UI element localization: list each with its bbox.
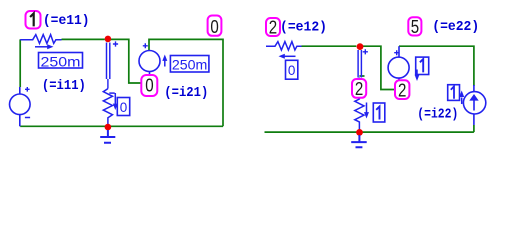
svg-text:2: 2: [355, 78, 363, 99]
resistor R0: [103, 89, 112, 127]
U1 plus sign: [394, 50, 399, 55]
wire port P2 bottom stub: [359, 75, 364, 77]
R2 current arrow (left): [284, 55, 296, 57]
R0 value box 0: [117, 98, 129, 116]
i21 plus sign: [143, 43, 148, 48]
current source i22: [463, 85, 485, 125]
wire top from resistor R2 to port dot: [302, 45, 357, 47]
P1 lead down to resistor R0: [107, 79, 109, 89]
ground: [100, 130, 115, 143]
node 0 box (below i21): [141, 75, 157, 96]
svg-text:0: 0: [210, 16, 218, 37]
resistor R3 (vertical): [355, 99, 364, 132]
svg-text:(=i22): (=i22): [417, 106, 458, 122]
svg-text:(=e12): (=e12): [280, 19, 327, 35]
svg-text:2: 2: [269, 17, 277, 38]
node 0 box (top right): [208, 16, 222, 36]
P1 plus sign: [113, 41, 118, 46]
current source i21: [139, 51, 160, 79]
R2 value box 0: [286, 60, 298, 79]
svg-text:0: 0: [120, 99, 128, 115]
svg-text:5: 5: [411, 16, 419, 37]
node 2 box (on port): [352, 79, 366, 98]
resistor R1: [20, 35, 61, 44]
R3 current arrow (down): [366, 103, 368, 113]
svg-text:(=e22): (=e22): [432, 19, 479, 35]
node dot bottom (ground junction): [105, 124, 112, 131]
i21 arrow (up): [164, 61, 166, 67]
ground: [351, 135, 367, 147]
wire right edge below i22: [473, 125, 475, 132]
i22 arrow (up, beside box): [461, 98, 463, 105]
U1 value box 1: [416, 57, 429, 74]
R1 value box 250m: [39, 53, 83, 69]
wire top from resistor R1 to port dot: [62, 38, 105, 40]
svg-text:(=i11): (=i11): [42, 78, 86, 94]
U1 arrow (down, small): [416, 70, 418, 75]
svg-text:(=i21): (=i21): [164, 85, 208, 101]
node 5 box (top right): [408, 17, 421, 35]
R3 value box 1: [373, 103, 385, 122]
wire bottom: [20, 125, 223, 127]
R1 current arrow: [35, 46, 49, 48]
wire bottom: [265, 131, 474, 133]
i21 value box 250m: [170, 56, 209, 73]
svg-text:0: 0: [288, 62, 296, 78]
node dot (node 2 junction): [357, 43, 364, 50]
wire left edge: [19, 39, 21, 87]
voltage source V1: [9, 87, 30, 126]
svg-text:(=e11): (=e11): [43, 13, 90, 29]
P2 plus sign: [363, 49, 368, 54]
voltage source U1: [388, 46, 409, 89]
svg-text:250m: 250m: [172, 56, 208, 72]
node dot bottom (ground junction): [356, 129, 363, 136]
svg-text:0: 0: [145, 75, 153, 96]
R0 current arrow (down): [114, 93, 116, 104]
P1 minus sign: [109, 92, 114, 94]
wire from port dot to source i21 bottom: [108, 39, 143, 83]
resistor R2 (top left): [266, 42, 302, 50]
node 2 box (top left): [266, 18, 280, 36]
i22 value box 1: [448, 85, 460, 101]
wire from source U1 top to right edge: [399, 46, 474, 86]
i22 internal arrow (up): [473, 100, 475, 111]
svg-text:2: 2: [398, 79, 406, 100]
V1 minus sign: [25, 117, 30, 119]
V1 plus sign: [25, 87, 30, 92]
wire from port dot down to source U1 bottom: [359, 46, 399, 89]
port P2 (two parallel lines): [358, 50, 361, 78]
node dot top (node 1 junction): [105, 36, 112, 43]
node 1 box: [26, 11, 41, 29]
wire from source i21 top to right edge: [149, 39, 223, 126]
P2 lead down to resistor R3: [358, 78, 360, 100]
svg-text:250m: 250m: [41, 53, 81, 69]
port P1 (two parallel lines): [107, 43, 110, 80]
node 2 box (below U1): [395, 80, 409, 99]
